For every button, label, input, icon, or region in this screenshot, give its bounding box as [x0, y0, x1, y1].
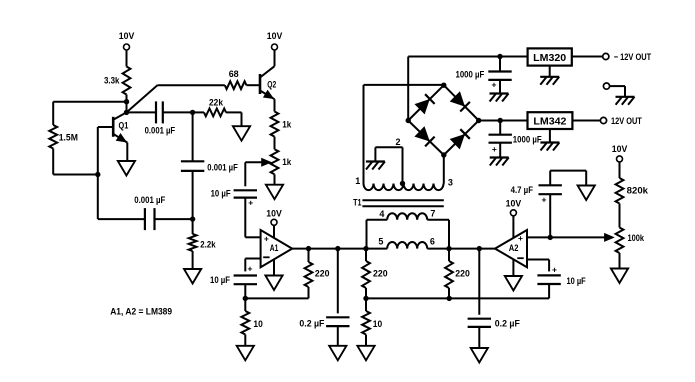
- resistor R1 3.3k: [123, 67, 131, 95]
- ground: [184, 269, 201, 284]
- svg-text:T1: T1: [353, 198, 361, 208]
- wire: [53, 101, 126, 103]
- diode CR2: [451, 92, 464, 105]
- svg-text:4: 4: [379, 209, 384, 219]
- node O: [498, 118, 503, 123]
- node N: [497, 54, 502, 59]
- svg-text:220: 220: [373, 269, 388, 279]
- node D: [190, 110, 195, 115]
- resistor R7 2.2k: [192, 219, 194, 234]
- ground: [118, 161, 135, 176]
- svg-text:Q1: Q1: [119, 121, 129, 131]
- node: bridge top: [441, 83, 446, 88]
- wire: bridge left to LM320 input: [407, 57, 409, 121]
- diode CR3: [416, 127, 429, 140]
- svg-text:10V: 10V: [266, 208, 282, 218]
- svg-text:3: 3: [448, 178, 453, 188]
- svg-text:0.001 µF: 0.001 µF: [145, 125, 176, 135]
- svg-text:2.2k: 2.2k: [200, 239, 216, 249]
- svg-text:0.2 µF: 0.2 µF: [299, 318, 324, 328]
- node A: [124, 99, 129, 104]
- svg-text:A2: A2: [509, 243, 519, 253]
- svg-text:1000 µF: 1000 µF: [456, 69, 485, 79]
- transistor Q2: [259, 74, 262, 94]
- ground: [357, 346, 374, 361]
- resistor R12 220: [448, 249, 450, 261]
- wire: bottom right bus: [366, 297, 549, 299]
- node I: [363, 246, 368, 251]
- ground: earth at common terminal: [616, 96, 635, 98]
- capacitor C2 0.001uF: [192, 112, 194, 161]
- node L: [446, 246, 451, 251]
- svg-text:LM342: LM342: [533, 116, 566, 128]
- svg-text:1.5M: 1.5M: [59, 133, 78, 143]
- svg-text:+: +: [248, 198, 253, 208]
- svg-text:1000 µF: 1000 µF: [513, 135, 542, 145]
- ground: earth below C8: [490, 156, 509, 158]
- capacitor C7 1000uF: [499, 57, 501, 72]
- node M: center tap pin 2: [400, 181, 405, 186]
- svg-text:LM320: LM320: [533, 52, 566, 64]
- capacitor C5 10uF: [234, 274, 257, 276]
- svg-text:220: 220: [455, 269, 470, 279]
- wire: [572, 120, 600, 122]
- wire: [274, 137, 276, 150]
- svg-text:10V: 10V: [506, 199, 522, 209]
- regulator U1 LM320: [528, 48, 572, 65]
- capacitor C9 4.7uF: [549, 194, 551, 237]
- svg-text:10V: 10V: [267, 31, 283, 41]
- diode bridge wires: [408, 85, 444, 120]
- ground: [578, 186, 595, 201]
- svg-text:10: 10: [373, 319, 382, 329]
- wire: main output line: [292, 248, 387, 250]
- resistor R8 10: [244, 298, 246, 311]
- svg-text:100k: 100k: [628, 233, 645, 243]
- resistor R2 1.5M: [52, 102, 54, 125]
- svg-text:10: 10: [253, 319, 262, 329]
- resistor R6 22k: [204, 109, 226, 117]
- wire: [274, 50, 276, 66]
- wire: bridge top to T1 pin 1: [364, 84, 444, 86]
- regulator U2 LM342: [528, 112, 573, 129]
- terminal: common: [603, 83, 609, 89]
- svg-text:12V OUT: 12V OUT: [611, 116, 642, 127]
- wire: A2 minus input: [527, 259, 549, 261]
- wire: [126, 95, 128, 113]
- wiper of R5: [245, 161, 263, 163]
- wire: [274, 174, 276, 184]
- node H: [335, 246, 340, 251]
- svg-text:10 µF: 10 µF: [567, 276, 587, 286]
- ground: earth below C7: [490, 92, 509, 94]
- wire: [127, 85, 158, 112]
- svg-text:220: 220: [315, 268, 330, 278]
- ground: LM320 ground pin: [549, 66, 551, 77]
- node: bridge bottom: [441, 152, 446, 157]
- resistor R9 220: [308, 249, 310, 262]
- wire: [97, 127, 99, 175]
- wire: [245, 297, 308, 299]
- diode CR4: [451, 135, 464, 148]
- capacitor C6 0.2uF: [337, 249, 339, 314]
- diode CR1: [416, 100, 429, 113]
- svg-text:10 µF: 10 µF: [211, 189, 231, 199]
- node C: [95, 172, 100, 177]
- wire: [53, 174, 98, 176]
- svg-text:10V: 10V: [612, 144, 628, 154]
- svg-text:A1: A1: [270, 243, 279, 253]
- svg-text:1: 1: [355, 176, 360, 186]
- wire: bridge right to LM342 input: [479, 120, 528, 122]
- resistor R13 820k: [619, 162, 621, 178]
- svg-text:6: 6: [430, 237, 435, 247]
- transformer T1 secondary winding pins 4-7: [387, 213, 427, 220]
- node Q: [477, 246, 482, 251]
- svg-text:4.7 µF: 4.7 µF: [511, 185, 534, 195]
- capacitor C11 0.2uF: [478, 249, 480, 315]
- svg-text:1k: 1k: [282, 120, 292, 130]
- svg-text:820k: 820k: [627, 186, 649, 196]
- op-amp A1: [261, 230, 293, 267]
- ground: LM342 ground pin: [549, 129, 551, 143]
- svg-text:+: +: [518, 233, 523, 243]
- wire: [619, 204, 621, 228]
- wire: [274, 99, 276, 111]
- resistor R11 10: [365, 298, 367, 311]
- svg-text:0.001 µF: 0.001 µF: [207, 163, 238, 173]
- svg-text:+: +: [492, 80, 497, 90]
- node P: [548, 235, 553, 240]
- ground: A1 ground pin: [273, 259, 275, 275]
- wire: A1 plus input: [245, 236, 260, 238]
- svg-text:2: 2: [395, 137, 400, 147]
- ground: A2 ground pin: [512, 259, 514, 276]
- svg-text:A1, A2 = LM389: A1, A2 = LM389: [110, 307, 172, 317]
- node G: A1 output: [306, 246, 311, 251]
- wire: [572, 56, 603, 58]
- svg-text:10V: 10V: [119, 31, 135, 41]
- node J: [363, 296, 368, 301]
- transformer T1 primary winding pins 1-3: [364, 184, 444, 191]
- transformer T1 core: [362, 199, 443, 201]
- terminal: 12V OUT: [600, 117, 606, 123]
- resistor R3 68: [225, 81, 247, 89]
- node: bridge right: [476, 118, 481, 123]
- wire: [619, 253, 621, 269]
- ground: [266, 185, 283, 200]
- wire: A2 plus input: [527, 236, 607, 238]
- node K: [447, 296, 452, 301]
- node E: [190, 216, 195, 221]
- capacitor C8 1000uF: [499, 121, 501, 135]
- wire: R5 wiper to C4: [244, 162, 246, 186]
- svg-text:3.3k: 3.3k: [104, 76, 120, 86]
- wire: A1 minus input: [245, 258, 260, 260]
- svg-text:+: +: [552, 265, 557, 275]
- transformer T1 secondary winding pins 5-6: [387, 242, 427, 249]
- svg-text:1k: 1k: [282, 157, 292, 167]
- terminal: -12V OUT: [603, 53, 609, 59]
- wire: [126, 50, 128, 67]
- op-amp A2: [495, 230, 527, 267]
- ground: [329, 346, 346, 361]
- transistor Q1: [112, 117, 115, 137]
- svg-text:Q2: Q2: [267, 80, 276, 90]
- ground: [471, 348, 488, 363]
- wire: [246, 84, 260, 86]
- svg-text:+: +: [542, 195, 547, 205]
- capacitor C10 10uF: [537, 274, 560, 276]
- svg-text:10 µF: 10 µF: [210, 275, 230, 285]
- capacitor C3 0.001uF: [97, 175, 99, 220]
- svg-text:− 12V OUT: − 12V OUT: [614, 52, 652, 63]
- node: bridge left: [406, 118, 411, 123]
- svg-text:0.001 µF: 0.001 µF: [134, 195, 165, 205]
- svg-text:7: 7: [430, 209, 435, 219]
- svg-text:68: 68: [229, 69, 239, 79]
- svg-text:22k: 22k: [209, 97, 224, 107]
- svg-text:+: +: [248, 264, 253, 274]
- node F: [243, 296, 248, 301]
- potentiometer R5 1k: [271, 149, 279, 174]
- svg-text:+: +: [264, 233, 269, 243]
- svg-text:+: +: [492, 144, 497, 154]
- node B: [124, 110, 129, 115]
- resistor R4 1k: [271, 112, 279, 137]
- resistor R10 220: [365, 249, 367, 261]
- potentiometer R14 100k: [616, 228, 624, 254]
- svg-text:0.2 µF: 0.2 µF: [495, 318, 520, 328]
- ground: [611, 269, 628, 284]
- capacitor C4 10uF: [234, 189, 257, 191]
- capacitor C1 0.001uF: [127, 111, 157, 113]
- svg-text:5: 5: [378, 237, 383, 247]
- ground: [233, 126, 250, 141]
- ground: [237, 346, 254, 361]
- ground: earth at pin 2: [366, 160, 385, 162]
- wire: [244, 198, 246, 238]
